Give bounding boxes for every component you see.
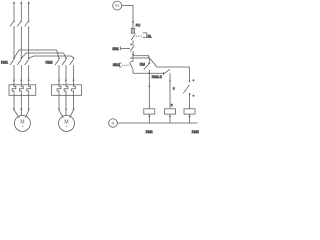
- wire KM1 coil branch: [148, 73, 150, 109]
- SB1 fixed contact tick: [130, 44, 132, 46]
- node right branch: [189, 93, 191, 95]
- wire branch from L1 to KM2 bank: [14, 50, 59, 58]
- wire bottom rail: [117, 122, 197, 124]
- switch QS pole 3: [25, 21, 29, 59]
- wire branch from L2 to KM2 bank: [21, 53, 66, 58]
- wire arrows above FR2: [58, 79, 60, 81]
- svg-text:~: ~: [21, 124, 24, 129]
- coil KM1: [144, 109, 155, 114]
- wire L2 supply vertical: [20, 3, 22, 21]
- wire arrow below KT coil: [169, 115, 171, 117]
- wire arrow below KM1 coil: [148, 115, 150, 117]
- contact KM1 pole 2: [17, 60, 21, 85]
- wire PS to control main: [122, 6, 133, 34]
- node L3 arrow: [28, 1, 30, 3]
- wire FR1 to motor M1: [14, 95, 29, 118]
- node L1 arrow: [13, 1, 15, 3]
- wire coil KT to rail: [169, 114, 171, 123]
- FR1 heater element 2: [19, 85, 23, 96]
- wire L1 supply vertical: [13, 3, 15, 21]
- svg-text:FU: FU: [136, 23, 141, 27]
- wire loop bottom: [133, 70, 149, 74]
- contact KT1 in-line blade: [163, 69, 170, 75]
- thermal relay FR2 box: [52, 85, 82, 96]
- contact KT delayed blade: [183, 67, 189, 109]
- svg-text:EL: EL: [148, 34, 152, 38]
- svg-text:PS: PS: [115, 4, 120, 8]
- switch EL dashed link: [136, 35, 143, 37]
- contact KM2 pole 3: [70, 60, 74, 85]
- contact KM2 pole 1: [55, 60, 59, 85]
- FR1 heater element 1: [12, 85, 16, 96]
- button SB2 operator: [120, 63, 122, 67]
- motor M2 circle: [59, 115, 75, 131]
- neutral N circle: [109, 119, 118, 128]
- svg-text:2: 2: [171, 103, 173, 107]
- node B junction: [148, 72, 150, 74]
- motor M1 circle: [14, 115, 30, 131]
- coil KT: [165, 109, 176, 114]
- wire arrow KM1 coil branch: [148, 85, 150, 87]
- coil KM2: [184, 109, 195, 114]
- contact KM1 pole 3: [25, 60, 29, 85]
- wire arrow pole3: [28, 79, 30, 81]
- wire arrows above M2: [58, 108, 60, 110]
- KT delay marks: [192, 79, 194, 97]
- source PS circle: [113, 1, 122, 10]
- svg-text:KM1: KM1: [146, 130, 153, 134]
- svg-text:~: ~: [65, 124, 68, 129]
- contact KM1-1 blade: [144, 63, 151, 69]
- wire branch from L3 to KM2 bank: [29, 56, 74, 58]
- FR1 heater element 3: [27, 85, 31, 96]
- thermal relay FR1 box: [9, 85, 36, 96]
- wire arrow KT coil branch: [169, 79, 171, 81]
- svg-text:SB2: SB2: [113, 63, 120, 67]
- contact KM2 pole 2: [62, 60, 66, 85]
- wire to right branch: [156, 66, 189, 68]
- contact KM1-2 blade: [149, 58, 156, 67]
- switch EL blade: [131, 34, 135, 45]
- node A junction: [132, 54, 134, 56]
- wire arrow below KM2 coil: [189, 115, 191, 117]
- wire arrow right branch: [189, 80, 191, 82]
- wire coil KM2 to rail: [189, 114, 191, 123]
- node L2 arrow: [20, 1, 22, 3]
- switch QS pole 2: [17, 21, 21, 59]
- FR2 heater element 3: [72, 85, 76, 96]
- svg-text:KM1: KM1: [1, 61, 8, 65]
- svg-text:KM1-2: KM1-2: [152, 75, 162, 79]
- wire arrow control top: [132, 20, 134, 22]
- switch EL operator bracket: [143, 33, 147, 38]
- svg-text:N: N: [112, 121, 115, 126]
- svg-text:5: 5: [173, 87, 175, 91]
- fuse FU2 ticks: [131, 28, 134, 33]
- svg-text:KM: KM: [140, 63, 145, 67]
- svg-text:KM2: KM2: [46, 61, 53, 65]
- wire loop top: [133, 58, 149, 63]
- button SB1 blade: [130, 45, 134, 54]
- FR2 heater element 2: [64, 85, 68, 96]
- svg-text:SB1: SB1: [112, 47, 119, 51]
- contact KM1 pole 1: [10, 60, 14, 85]
- svg-text:KM2: KM2: [192, 130, 199, 134]
- button SB2 blade: [130, 61, 133, 69]
- wire arrow pole2: [20, 79, 22, 81]
- wire FR2 to motor M2: [59, 95, 74, 118]
- wire arrow pole1: [13, 79, 15, 81]
- button SB2 dashed link: [122, 64, 129, 66]
- FR2 heater element 1: [57, 85, 61, 96]
- wire arrows above M1: [13, 108, 15, 110]
- wire node B horizontal: [133, 73, 170, 108]
- button SB1 stem: [120, 46, 130, 50]
- wire node A down: [132, 55, 134, 62]
- wire L3 supply vertical: [28, 3, 30, 21]
- wire coil KM1 to rail: [148, 114, 150, 123]
- switch QS pole 1: [10, 21, 14, 59]
- wire node A to KM1-2 contact: [133, 55, 149, 57]
